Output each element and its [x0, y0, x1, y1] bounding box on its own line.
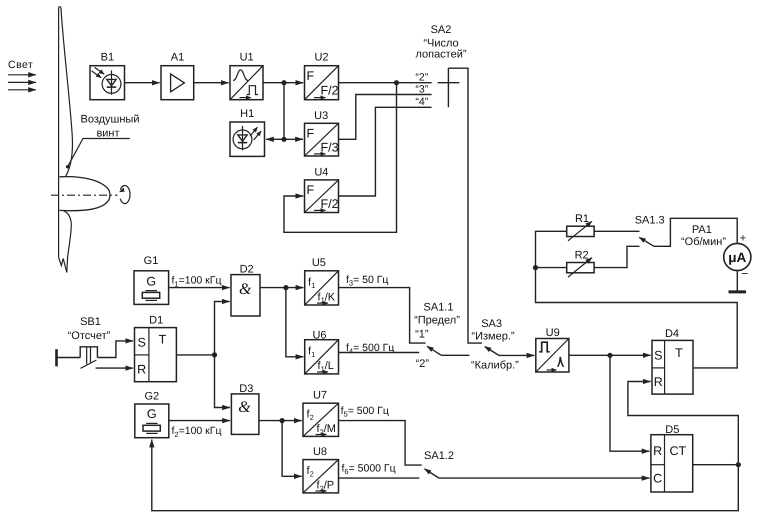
rotation direction arrow — [119, 186, 130, 204]
wire D1 junction up to D2 input — [215, 302, 230, 355]
switch SA2 movable bar — [438, 68, 460, 108]
wire D2 junction to U6 — [286, 288, 304, 357]
node "2" label — [415, 71, 428, 83]
svg-text:U3: U3 — [314, 110, 328, 122]
photodetector B1 — [90, 52, 125, 100]
value label f2=100 кГц — [172, 425, 222, 439]
wire D1 junction down to D3 input — [215, 355, 231, 408]
wire SB1 to D1 S input — [97, 341, 133, 358]
light ray arrow 2 — [8, 81, 36, 83]
wire D3 junction to U8 — [282, 421, 302, 477]
svg-text:f4= 500 Гц: f4= 500 Гц — [346, 342, 394, 356]
node junction at D5 output corner — [736, 462, 741, 467]
svg-text:лопастей”: лопастей” — [415, 49, 466, 61]
svg-text:“2”: “2” — [415, 71, 428, 83]
svg-text:“1”: “1” — [415, 329, 429, 341]
wire U7 output to SA1.2 contact — [339, 421, 422, 466]
divider U7 — [303, 390, 339, 437]
svg-text:U8: U8 — [313, 446, 327, 458]
svg-text:R: R — [654, 375, 663, 389]
wire U9 to D4 S input — [569, 354, 651, 356]
pulse-to-analog converter U9 — [536, 327, 569, 372]
svg-text:SA1.1: SA1.1 — [424, 301, 454, 313]
switch SA3 wiper — [485, 347, 535, 356]
svg-text:H1: H1 — [240, 108, 254, 120]
svg-text:G2: G2 — [144, 391, 159, 403]
svg-text:G: G — [146, 275, 156, 289]
svg-text:“Измер.”: “Измер.” — [471, 330, 514, 342]
value label f4= 500 Гц — [346, 342, 394, 356]
wire D5 junction to G2 (bottom feedback) — [152, 440, 739, 511]
value label f6= 5000 Гц — [342, 462, 396, 476]
divider U2 — [305, 52, 339, 100]
generator G2 — [135, 391, 169, 438]
resistor R1 — [567, 213, 594, 241]
svg-text:SA3: SA3 — [481, 318, 502, 330]
svg-text:SB1: SB1 — [80, 316, 101, 328]
propeller hub spinner — [60, 177, 110, 211]
switch SA1.2 label — [424, 450, 454, 462]
svg-text:U1: U1 — [240, 52, 254, 64]
wire A1 to U1 — [194, 82, 229, 84]
wire G1 to D2 — [169, 287, 230, 289]
svg-text:R2: R2 — [575, 249, 589, 261]
svg-text:Свет: Свет — [8, 59, 33, 71]
wire U1 to U2 — [263, 82, 303, 84]
wire D5 output junction loop to D4 R input — [628, 382, 738, 465]
wire U4 input (from "2" line junction) — [284, 83, 397, 233]
ground — [729, 290, 747, 293]
light ray arrow 3 — [8, 89, 36, 91]
rotation axis (dash-dot) — [51, 194, 118, 196]
svg-text:U2: U2 — [314, 52, 328, 64]
svg-text:D4: D4 — [665, 328, 679, 340]
counter D5 — [651, 424, 693, 492]
pulse shaper U1 — [230, 52, 263, 100]
wire D2 to U5 — [260, 287, 303, 289]
svg-text:“2”: “2” — [416, 358, 430, 370]
svg-text:μA: μA — [728, 250, 746, 265]
node "4" label — [415, 96, 428, 108]
svg-text:U5: U5 — [312, 257, 326, 269]
wire R2 to SA1.3 contact — [594, 246, 639, 267]
node junction on H1-U3 wire — [281, 137, 286, 142]
svg-text:D1: D1 — [149, 314, 163, 326]
node junction at D3 output — [280, 418, 285, 423]
generator G1 — [134, 255, 169, 305]
svg-text:F: F — [307, 183, 315, 197]
wire R1 to SA1.3 contact — [594, 230, 639, 232]
svg-text:“3”: “3” — [415, 83, 428, 95]
svg-text:SA2: SA2 — [431, 24, 452, 36]
svg-text:&: & — [238, 399, 251, 416]
label Воздушный винт with leader — [66, 114, 140, 169]
button SB1 label — [68, 316, 111, 342]
AND gate D2 — [231, 263, 260, 316]
svg-text:U7: U7 — [313, 390, 327, 402]
svg-text:U4: U4 — [314, 166, 328, 178]
wire H1 to U3 (double arrows) — [266, 138, 303, 140]
amplifier A1 — [161, 52, 194, 100]
wire G2 to D3 — [169, 420, 230, 422]
trigger D4 — [652, 328, 693, 394]
svg-text:Воздушный: Воздушный — [80, 114, 139, 126]
svg-text:U9: U9 — [546, 327, 560, 339]
value label f3= 50 Гц — [346, 274, 388, 288]
svg-text:PA1: PA1 — [692, 224, 712, 236]
light ray arrow 1 — [8, 74, 36, 76]
switch SA1.3 wiper and wire to PA1 — [639, 218, 737, 246]
svg-text:“Число: “Число — [423, 37, 458, 49]
node junction at U9 output — [607, 353, 612, 358]
wire D3 to U7 — [259, 420, 302, 422]
switch SA2 label — [415, 24, 466, 61]
svg-text:G: G — [147, 407, 157, 421]
svg-text:T: T — [675, 346, 683, 360]
svg-text:“Предел”: “Предел” — [414, 314, 460, 326]
svg-text:f1=100 кГц: f1=100 кГц — [172, 275, 222, 289]
button SB1 — [57, 347, 98, 369]
meter PA1 — [681, 224, 751, 281]
wire junction down to H1-U3 line — [283, 83, 285, 140]
divider U4 — [305, 166, 339, 212]
svg-text:“Об/мин”: “Об/мин” — [681, 236, 726, 248]
svg-text:R: R — [653, 444, 662, 458]
svg-text:“4”: “4” — [415, 96, 428, 108]
svg-text:f2=100 кГц: f2=100 кГц — [172, 425, 222, 439]
svg-text:F: F — [307, 69, 315, 83]
svg-text:“Калибр.”: “Калибр.” — [471, 359, 519, 371]
node junction at U1 output — [281, 80, 286, 85]
divider U3 — [305, 110, 339, 156]
svg-text:f6= 5000 Гц: f6= 5000 Гц — [342, 462, 396, 476]
wire D1 output — [176, 354, 214, 356]
svg-text:S: S — [654, 348, 662, 362]
switch SA1.1 labels — [414, 301, 460, 370]
svg-text:f3= 50 Гц: f3= 50 Гц — [346, 274, 388, 288]
divider U6 — [305, 329, 339, 374]
svg-text:SA1.3: SA1.3 — [635, 214, 665, 226]
propeller blade — [59, 7, 73, 273]
svg-text:CT: CT — [669, 444, 686, 458]
switch SA1.2 wiper — [425, 469, 650, 478]
wire U3 output ("3" line) — [339, 95, 432, 140]
svg-text:F/2: F/2 — [321, 197, 339, 211]
svg-text:T: T — [159, 333, 167, 347]
resistor R2 — [567, 249, 594, 277]
svg-text:C: C — [653, 472, 662, 486]
switch SA1.1 wiper — [427, 346, 470, 355]
svg-text:S: S — [138, 336, 146, 350]
svg-text:F: F — [307, 126, 315, 140]
value label f1=100 кГц — [172, 275, 222, 289]
divider U5 — [305, 257, 339, 305]
svg-text:F/2: F/2 — [321, 84, 339, 98]
node Свет (light) label — [8, 59, 33, 71]
wire vertical junction to R2 — [536, 267, 567, 269]
trigger D1 — [135, 314, 177, 381]
switch SA3 labels — [471, 318, 519, 371]
svg-text:“Отсчет”: “Отсчет” — [68, 330, 111, 342]
node junction at D1 output — [212, 352, 217, 357]
wire U2 output ("2" line) — [339, 82, 432, 84]
wire B1 to A1 — [125, 82, 160, 84]
svg-text:B1: B1 — [101, 52, 114, 64]
svg-text:G1: G1 — [144, 255, 159, 267]
wire U8 output to SA1.2 contact — [339, 477, 420, 479]
svg-text:D2: D2 — [240, 263, 254, 275]
wire U4 output ("4" line) — [339, 107, 432, 196]
node "3" label — [415, 83, 428, 95]
svg-text:+: + — [740, 232, 746, 244]
divider U8 — [303, 446, 339, 493]
wire U5 output to SA1.1 contact 1 — [339, 288, 426, 344]
wire D4 T output to R1/R2 — [536, 231, 738, 368]
AND gate D3 — [231, 383, 259, 435]
lamp H1 — [230, 108, 265, 156]
node junction at D2 output — [283, 285, 288, 290]
svg-text:f5= 500 Гц: f5= 500 Гц — [341, 405, 389, 419]
svg-text:A1: A1 — [171, 52, 184, 64]
svg-text:D3: D3 — [239, 383, 253, 395]
wire to D1 R input — [96, 367, 134, 369]
node junction on "2" line — [394, 80, 399, 85]
svg-text:R: R — [137, 363, 146, 377]
svg-text:SA1.2: SA1.2 — [424, 450, 454, 462]
wire PA1 to ground — [736, 271, 738, 291]
wire SA2 common to SA3 Измер contact — [448, 68, 482, 343]
svg-text:R1: R1 — [575, 213, 589, 225]
svg-text:−: − — [741, 267, 748, 281]
node junction at R2 left — [533, 265, 538, 270]
value label f5= 500 Гц — [341, 405, 389, 419]
svg-text:F/3: F/3 — [321, 140, 339, 154]
wire U9 junction to D5 R input — [610, 355, 650, 451]
wire U6 output to SA1.1 contact 2 — [339, 352, 420, 354]
svg-text:винт: винт — [96, 128, 119, 140]
switch SA1.3 label — [635, 214, 665, 226]
svg-text:&: & — [239, 281, 252, 298]
